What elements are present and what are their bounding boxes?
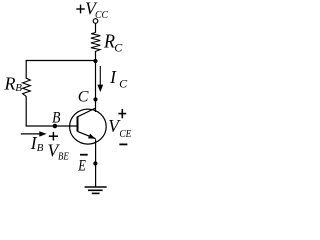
node C dot bbox=[93, 97, 97, 101]
node B dot bbox=[53, 124, 58, 129]
transistor Q1 emitter diagonal bbox=[78, 131, 96, 138]
label IC bbox=[109, 67, 128, 91]
ground bbox=[85, 187, 107, 193]
label VCE bbox=[108, 116, 132, 140]
label RB bbox=[4, 73, 23, 94]
label RC bbox=[103, 30, 123, 54]
arrow IC bbox=[97, 66, 103, 92]
label VBE bbox=[48, 140, 69, 162]
svg-text:CE: CE bbox=[119, 129, 132, 141]
plus VBE bbox=[49, 135, 58, 137]
label IB bbox=[30, 133, 44, 154]
svg-text:B: B bbox=[15, 82, 22, 94]
svg-text:C: C bbox=[114, 41, 123, 55]
node E dot bbox=[93, 161, 97, 165]
arrow IB bbox=[21, 131, 47, 136]
transistor Q1 collector diagonal bbox=[78, 108, 96, 117]
wire RB bottom vertical bbox=[25, 96, 27, 126]
wire RB top vertical bbox=[25, 61, 27, 79]
minus VBE bbox=[80, 154, 88, 156]
junction dot top bbox=[93, 59, 97, 63]
svg-text:B: B bbox=[52, 110, 60, 127]
wire RC to collector bbox=[95, 51, 97, 112]
transistor Q1 emitter arrowhead bbox=[88, 134, 95, 139]
svg-text:E: E bbox=[77, 157, 86, 175]
wire base bbox=[26, 125, 78, 127]
wire emitter vertical bbox=[95, 139, 97, 186]
wire RB top horizontal bbox=[26, 60, 96, 62]
transistor Q1 circle bbox=[70, 109, 107, 144]
resistor RB bbox=[23, 78, 31, 96]
svg-text:I: I bbox=[109, 67, 117, 87]
node VCC label +VCC bbox=[76, 0, 108, 21]
minus VCE bbox=[119, 143, 127, 145]
svg-text:C: C bbox=[78, 89, 89, 106]
svg-text:BE: BE bbox=[58, 151, 69, 163]
transistor Q1 base bar bbox=[77, 117, 79, 132]
resistor RC bbox=[91, 33, 100, 52]
terminal VCC bbox=[93, 19, 98, 24]
svg-text:C: C bbox=[119, 77, 128, 91]
svg-text:R: R bbox=[4, 73, 16, 93]
svg-text:B: B bbox=[37, 142, 44, 154]
wire VCC terminal to RC bbox=[95, 23, 97, 32]
plus VCE bbox=[118, 113, 126, 115]
